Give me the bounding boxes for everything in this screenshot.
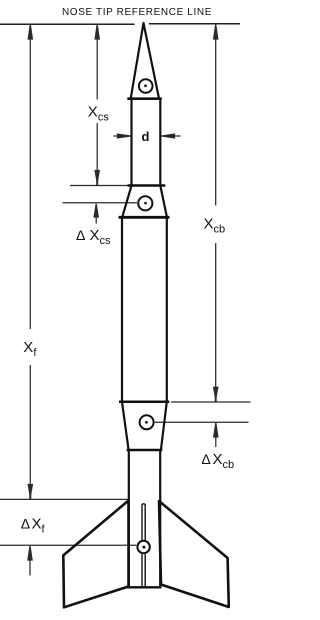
shoulder transition bottom line	[119, 216, 170, 219]
CG circle nose	[139, 79, 153, 93]
shoulder transition sides	[122, 186, 167, 218]
boattail sides	[122, 402, 167, 450]
CG circle shoulder	[138, 196, 152, 210]
CG circle fins	[137, 541, 149, 553]
nose tip reference line	[0, 23, 240, 25]
svg-text:Xcb: Xcb	[204, 216, 226, 236]
boattail top line	[119, 401, 169, 404]
delta X_f extension lines	[0, 499, 136, 575]
CG circle boattail	[140, 415, 154, 429]
nose cone base line	[127, 97, 162, 100]
svg-text:Δ: Δ	[21, 516, 30, 532]
svg-text:Δ: Δ	[76, 227, 85, 243]
dimension line X_f (vertical, left)	[28, 25, 32, 500]
lower tube	[129, 450, 160, 587]
body bottom	[127, 586, 162, 588]
svg-text:Xcs: Xcs	[90, 227, 112, 247]
svg-text:Δ: Δ	[201, 451, 210, 467]
svg-text:Xf: Xf	[32, 516, 46, 536]
delta X_cb extension lines	[155, 402, 251, 447]
center fin edge-on strip	[142, 504, 145, 587]
diameter d dimension arrows	[113, 134, 180, 138]
dimension line X_cs (vertical)	[95, 25, 99, 186]
svg-text:Xf: Xf	[23, 339, 37, 359]
svg-text:Xcb: Xcb	[213, 451, 235, 471]
nose cone	[131, 23, 159, 98]
dimension line X_cb (vertical, right)	[214, 25, 218, 402]
shoulder transition top line	[128, 184, 166, 187]
boattail bottom line	[127, 449, 163, 452]
left fin	[63, 501, 128, 608]
delta X_cs extension lines	[63, 186, 138, 224]
svg-text:Xcs: Xcs	[88, 104, 110, 124]
svg-text:d: d	[142, 129, 150, 144]
neck tube (diameter d)	[132, 99, 161, 186]
right fin	[159, 501, 229, 607]
svg-text:NOSE TIP REFERENCE LINE: NOSE TIP REFERENCE LINE	[62, 7, 212, 18]
main body tube	[122, 217, 167, 402]
